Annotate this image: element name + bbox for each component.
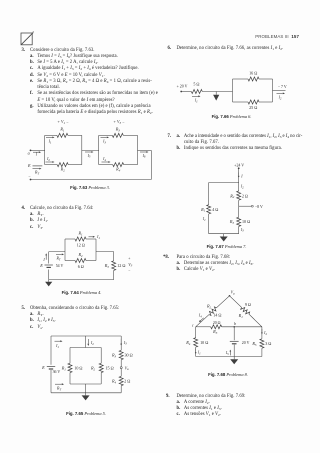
svg-text:Va: Va — [231, 289, 235, 295]
svg-text:3 Ω: 3 Ω — [265, 341, 271, 346]
svg-text:2 Ω: 2 Ω — [124, 379, 130, 384]
svg-text:10 Ω: 10 Ω — [200, 340, 208, 345]
svg-text:R2: R2 — [229, 193, 235, 199]
svg-text:R2: R2 — [206, 304, 212, 310]
svg-text:R1: R1 — [77, 231, 83, 237]
svg-text:I2: I2 — [90, 341, 94, 346]
svg-text:−8 V: −8 V — [255, 205, 263, 209]
svg-text:I2: I2 — [278, 96, 282, 101]
svg-text:a: a — [28, 150, 30, 155]
svg-text:+ V3 −: + V3 − — [113, 119, 125, 125]
svg-text:R2: R2 — [90, 366, 96, 372]
svg-text:R2: R2 — [60, 167, 66, 173]
svg-text:E: E — [41, 365, 45, 370]
svg-text:I3: I3 — [123, 341, 127, 346]
svg-text:R4: R4 — [111, 379, 117, 385]
svg-text:36 V: 36 V — [53, 370, 61, 374]
svg-text:R1: R1 — [200, 207, 206, 213]
svg-text:c: c — [192, 323, 194, 327]
svg-text:6 Ω: 6 Ω — [78, 264, 84, 269]
svg-text:R4: R4 — [115, 167, 121, 173]
svg-text:I5: I5 — [87, 154, 91, 159]
svg-text:I1: I1 — [194, 99, 198, 104]
svg-text:Va: Va — [125, 365, 129, 371]
svg-text:R5: R5 — [251, 341, 257, 347]
svg-text:2 Ω: 2 Ω — [242, 193, 248, 198]
svg-text:25 Ω: 25 Ω — [249, 105, 257, 110]
svg-text:+ V1 −: + V1 − — [57, 119, 69, 125]
svg-text:RT: RT — [55, 256, 60, 261]
svg-text:I2: I2 — [263, 331, 267, 336]
svg-text:RT: RT — [56, 387, 61, 392]
svg-text:R4: R4 — [185, 340, 191, 346]
svg-text:b: b — [234, 322, 236, 326]
svg-text:+ 20 V: + 20 V — [177, 84, 188, 88]
svg-text:5 Ω: 5 Ω — [193, 82, 199, 87]
svg-text:I2: I2 — [240, 185, 244, 190]
svg-text:E: E — [39, 263, 43, 268]
svg-text:R2: R2 — [77, 252, 83, 258]
svg-text:12 Ω: 12 Ω — [117, 263, 125, 268]
svg-text:I6: I6 — [142, 154, 146, 159]
svg-text:I1: I1 — [55, 344, 59, 349]
svg-text:R3: R3 — [111, 353, 117, 359]
svg-text:I4: I4 — [102, 157, 106, 162]
svg-text:12 Ω: 12 Ω — [77, 242, 85, 247]
svg-text:10 Ω: 10 Ω — [74, 365, 82, 370]
svg-text:R3: R3 — [229, 219, 235, 225]
svg-text:−: − — [128, 269, 130, 273]
svg-text:I: I — [240, 175, 243, 179]
svg-text:54 V: 54 V — [56, 264, 64, 268]
svg-text:I5: I5 — [225, 351, 229, 356]
svg-text:R3: R3 — [212, 329, 218, 335]
svg-text:RT: RT — [34, 170, 39, 175]
svg-text:15 Ω: 15 Ω — [106, 365, 114, 370]
svg-text:30 Ω: 30 Ω — [125, 353, 133, 358]
svg-text:I3: I3 — [240, 228, 244, 233]
svg-text:I: I — [35, 152, 38, 156]
svg-text:R1: R1 — [59, 127, 65, 133]
svg-text:16 Ω: 16 Ω — [249, 70, 257, 75]
svg-text:I1: I1 — [197, 351, 201, 356]
svg-text:20 V: 20 V — [242, 341, 250, 345]
svg-text:10 Ω: 10 Ω — [242, 219, 250, 224]
svg-text:9 Ω: 9 Ω — [245, 302, 251, 307]
svg-text:R3: R3 — [115, 127, 121, 133]
svg-text:V3: V3 — [128, 262, 132, 268]
svg-text:4 Ω: 4 Ω — [212, 207, 218, 212]
svg-text:I1: I1 — [202, 217, 206, 222]
svg-text:+24 V: +24 V — [234, 164, 244, 168]
svg-text:I1: I1 — [48, 139, 52, 144]
svg-text:I2: I2 — [46, 157, 50, 162]
svg-text:I: I — [42, 258, 45, 262]
svg-text:I1: I1 — [96, 235, 100, 240]
svg-text:I3: I3 — [102, 139, 106, 144]
svg-text:E: E — [27, 163, 31, 168]
svg-text:20 Ω: 20 Ω — [213, 321, 221, 325]
svg-text:−: − — [28, 174, 31, 179]
svg-text:+: + — [128, 256, 130, 260]
svg-text:R1: R1 — [61, 366, 67, 372]
svg-text:R3: R3 — [104, 263, 110, 269]
svg-text:− 7 V: − 7 V — [278, 85, 287, 89]
svg-text:R1: R1 — [238, 313, 244, 319]
svg-text:I4: I4 — [198, 314, 202, 319]
svg-text:14 Ω: 14 Ω — [213, 313, 221, 318]
